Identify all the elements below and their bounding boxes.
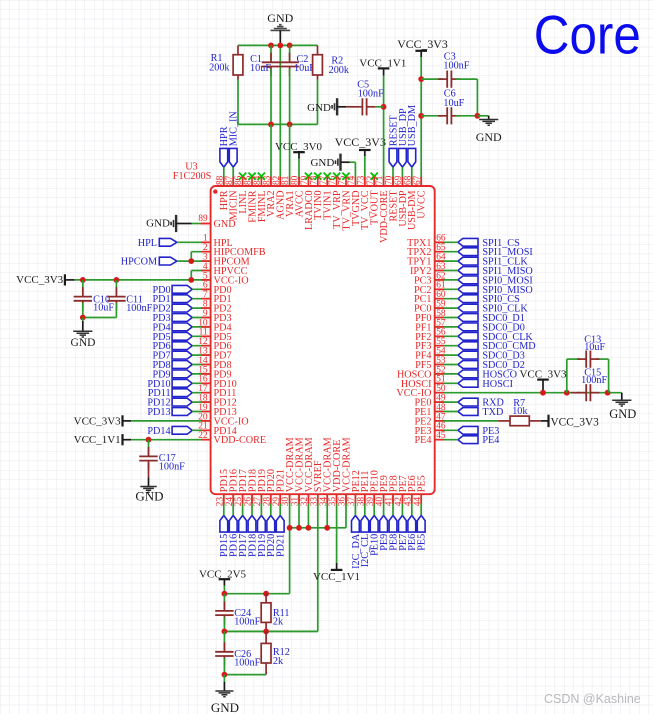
junction pin32 rail xyxy=(306,525,312,531)
svg-text:HPL: HPL xyxy=(138,238,157,249)
wire SVREF pin33 xyxy=(224,494,317,631)
wire VCC_1V1 pin22 xyxy=(131,439,211,441)
pin 38 PE11 (bottom) xyxy=(356,470,371,506)
wire PD20 xyxy=(270,494,272,515)
wire HOSCI xyxy=(435,382,458,384)
svg-text:GND: GND xyxy=(135,489,163,504)
pin 25 PD17 (bottom) xyxy=(234,469,249,506)
wire SPI0_CS xyxy=(435,298,458,300)
pin 34 VCC-DRAM (bottom) xyxy=(319,437,334,506)
wire GND to pin 74 xyxy=(350,162,356,186)
junction C1 top xyxy=(268,43,274,49)
wire top rail R1-R2 xyxy=(238,44,318,46)
junction pin30 rail xyxy=(287,525,293,531)
power VCC_1V1 (pin 35) xyxy=(313,494,360,583)
wire C6 right xyxy=(456,115,478,117)
svg-text:100nF: 100nF xyxy=(234,658,260,669)
svg-text:10uF: 10uF xyxy=(584,342,605,353)
net flag PE9 (pin 40) xyxy=(379,515,390,550)
wire HPR xyxy=(223,167,225,186)
junction C2 top xyxy=(287,43,293,49)
net flag SPI1_CS (pin 66) xyxy=(458,238,520,249)
wire VCC_3V3 to pin 73 xyxy=(364,156,366,186)
net flag SDC0_D0 (pin 57) xyxy=(458,322,525,333)
wire PD0 xyxy=(192,288,210,290)
junction C1 bottom xyxy=(268,122,274,128)
svg-text:200k: 200k xyxy=(209,62,230,73)
wire VCC_1V1 to pin 71 xyxy=(383,76,385,187)
wire PD1 xyxy=(192,298,210,300)
net flag PD10 (pin 16) xyxy=(147,379,192,390)
wire SDC0_CLK xyxy=(435,335,458,337)
net flag MIC_IN (pin 87) xyxy=(229,111,240,168)
wire VCC_3V3 rail to pin 67 xyxy=(420,57,422,186)
pin 57 PF1 (right) xyxy=(415,318,446,333)
svg-text:100nF: 100nF xyxy=(234,617,260,628)
pin 69 USB-DP (top) xyxy=(394,175,409,226)
net flag PD7 (pin 13) xyxy=(152,351,192,362)
svg-text:GND: GND xyxy=(267,11,293,25)
pin 67 UVCC (top) xyxy=(413,175,428,218)
pin 18 PD12 (left) xyxy=(198,394,236,409)
pin 52 HOSCO (right) xyxy=(397,365,446,380)
junction C6 right xyxy=(475,113,481,119)
junction HPCOM tie xyxy=(188,258,194,264)
wire PE8 xyxy=(392,494,394,515)
wire AGND vertical to pin 82 xyxy=(279,43,281,186)
pin 73 TV_VCC (top) xyxy=(356,175,371,230)
pin 28 PD20 (bottom) xyxy=(262,469,277,506)
pin 60 PC1 (right) xyxy=(414,290,446,305)
svg-text:UVCC: UVCC xyxy=(417,190,428,219)
junction mid C24 xyxy=(222,629,228,635)
svg-text:PD21: PD21 xyxy=(276,534,287,557)
pin 58 PF0 (right) xyxy=(415,309,446,324)
capacitor C10 xyxy=(74,280,115,313)
pin 84 FMINL (top) xyxy=(253,173,268,223)
capacitor C26 xyxy=(215,631,260,668)
power VCC_1V1 (pin 22) xyxy=(74,434,131,446)
net flag PD18 (pin 26) xyxy=(247,515,258,557)
ground top (AGND) xyxy=(267,11,293,43)
U3 pin leads xyxy=(201,177,444,504)
power VCC_3V3 (pin 20) xyxy=(74,415,131,427)
net flag PD20 (pin 28) xyxy=(266,515,277,557)
ground C5 xyxy=(307,98,346,115)
wire divider bottom rail xyxy=(224,658,266,675)
pin 86 LINL (top) xyxy=(234,173,249,214)
net flag USB_DM (pin 68) xyxy=(407,105,418,167)
pin 61 PC2 (right) xyxy=(414,281,446,296)
net flag PD9 (pin 15) xyxy=(152,369,192,380)
svg-text:VCC_3V3: VCC_3V3 xyxy=(16,274,64,286)
pin 22 VDD-CORE (left) xyxy=(198,431,266,446)
pin 6 PD0 (left) xyxy=(203,281,232,296)
capacitor C24 xyxy=(215,594,260,628)
pin 10 PD4 (left) xyxy=(198,318,231,333)
pin 20 VCC-IO (left) xyxy=(198,412,248,427)
pin 30 VCC-DRAM (bottom) xyxy=(281,437,296,506)
pin 24 PD16 (bottom) xyxy=(225,469,240,506)
wire PE9 xyxy=(383,494,385,515)
pin 17 PD11 (left) xyxy=(198,384,236,399)
U3 pin1 dot xyxy=(213,189,217,193)
wire PD13 xyxy=(192,411,210,413)
wire RXD xyxy=(435,401,458,403)
pin 74 TVGND (top) xyxy=(347,175,362,226)
junction HPVCC tie xyxy=(188,277,194,283)
junction C10 top xyxy=(80,277,86,283)
wire I2C_CL xyxy=(364,494,366,515)
wire SPI0_MOSI xyxy=(435,279,458,281)
wire C2 bottom xyxy=(289,69,291,125)
pin 32 VCC-DRAM (bottom) xyxy=(300,437,315,506)
wire PD9 xyxy=(192,373,210,375)
wire SPI1_MOSI xyxy=(435,251,458,253)
wire C10/C11 bottom xyxy=(83,303,117,318)
wire SPI1_MISO xyxy=(435,270,458,272)
svg-text:VCC_3V3: VCC_3V3 xyxy=(335,135,386,149)
pin 1 HPL (left) xyxy=(203,234,233,249)
wire PD7 xyxy=(192,354,210,356)
net flag HPL (pin 1) xyxy=(138,238,177,249)
pin 55 PF3 (right) xyxy=(415,337,446,352)
net flag I2C_CL (pin 38) xyxy=(360,515,371,567)
net flag RXD (pin 49) xyxy=(458,398,504,409)
pin 85 FMINR (top) xyxy=(244,173,259,223)
junction C3 branch xyxy=(418,76,424,82)
capacitor C6 xyxy=(421,88,464,124)
wire C5 to VCC_1V1 xyxy=(375,106,384,108)
wire R2 bottom lead xyxy=(317,75,319,124)
wire USB_DP xyxy=(401,167,403,186)
svg-text:F1C200S: F1C200S xyxy=(173,171,212,182)
pin 36 VCC-DRAM (bottom) xyxy=(338,437,353,506)
pin 12 PD6 (left) xyxy=(198,337,231,352)
wire PD5 xyxy=(192,335,210,337)
net flag USB_DP (pin 69) xyxy=(398,108,409,167)
resistor R12 xyxy=(261,631,290,667)
pin 14 PD8 (left) xyxy=(198,356,231,371)
svg-text:VCC_1V1: VCC_1V1 xyxy=(313,571,360,583)
svg-text:10uF: 10uF xyxy=(93,302,114,313)
resistor R1 xyxy=(209,53,243,75)
wire RESET xyxy=(392,167,394,186)
pin 23 PD15 (bottom) xyxy=(215,469,230,506)
wire PD16 xyxy=(232,494,234,515)
net flag HPCOM (pin 3) xyxy=(121,257,177,268)
svg-text:VCC_3V3: VCC_3V3 xyxy=(397,37,448,51)
pin 76 TV_VRP (top) xyxy=(328,173,343,229)
wire VCC_3V3 rail pin5 xyxy=(75,271,211,280)
pin 87 MICIN (top) xyxy=(225,175,240,220)
svg-text:2k: 2k xyxy=(273,617,284,628)
net flag PD1 (pin 7) xyxy=(152,294,192,305)
pin 46 PE3 (right) xyxy=(415,422,446,437)
wire PD3 xyxy=(192,317,210,319)
wire SDC0_D0 xyxy=(435,326,458,328)
net flag SDC0_CLK (pin 56) xyxy=(458,332,534,343)
wire USB_DM xyxy=(411,167,413,186)
pin 43 PE6 (bottom) xyxy=(403,475,418,506)
pin 47 PE2 (right) xyxy=(415,412,446,427)
wire SDC0_CMD xyxy=(435,345,458,347)
net flag PD19 (pin 27) xyxy=(257,515,268,557)
wire SPI0_CLK xyxy=(435,307,458,309)
net flag I2C_DA (pin 37) xyxy=(351,515,362,568)
wire PD14 xyxy=(192,429,210,431)
svg-text:Core: Core xyxy=(534,3,641,65)
wire VCC_3V3 pin20 xyxy=(131,420,211,422)
svg-text:100nF: 100nF xyxy=(443,60,469,71)
net flag PD8 (pin 14) xyxy=(152,360,192,371)
wire R1 bottom lead xyxy=(237,75,239,124)
pin 89 GND (left) xyxy=(198,213,235,230)
svg-text:GND: GND xyxy=(476,130,502,144)
pin 13 PD7 (left) xyxy=(198,347,231,362)
pin 26 PD18 (bottom) xyxy=(244,469,259,506)
pin 44 PE5 (bottom) xyxy=(413,475,428,506)
pin 11 PD5 (left) xyxy=(199,328,232,343)
power VCC_1V1 (pin 71 VDD-CORE) xyxy=(359,57,406,75)
svg-text:GND: GND xyxy=(71,337,96,349)
svg-text:PE5: PE5 xyxy=(417,475,428,492)
pin 77 TVIN1 (top) xyxy=(319,173,334,220)
net flag SPI1_MOSI (pin 65) xyxy=(458,247,533,258)
power VCC_3V3 (R7) xyxy=(541,415,599,429)
net flag SPI0_CS (pin 60) xyxy=(458,294,520,305)
wire VRA1 to pin 81 xyxy=(289,124,291,186)
svg-text:USB_DM: USB_DM xyxy=(407,105,418,146)
pin 49 PE0 (right) xyxy=(415,394,446,409)
junction C2 bottom xyxy=(287,122,293,128)
wire PD6 xyxy=(192,345,210,347)
wire PD10 xyxy=(192,382,210,384)
svg-text:VCC_3V3: VCC_3V3 xyxy=(74,415,122,427)
pin 29 PD21 (bottom) xyxy=(272,469,287,506)
svg-text:10uF: 10uF xyxy=(443,98,464,109)
wire PD15 xyxy=(223,494,225,515)
svg-text:PD13: PD13 xyxy=(147,407,170,418)
wire PD19 xyxy=(260,494,262,515)
pin 39 PE10 (bottom) xyxy=(366,470,381,506)
pin 3 HPCOM (left) xyxy=(203,253,250,268)
net flag PD21 (pin 29) xyxy=(276,515,287,557)
junction C15 left xyxy=(564,390,570,396)
wire PD2 xyxy=(192,307,210,309)
net flag PE3 (pin 46) xyxy=(458,426,499,437)
wire SDC0_D1 xyxy=(435,317,458,319)
net flag PE5 (pin 44) xyxy=(417,515,428,550)
resistor R7 xyxy=(510,398,529,426)
net flag PD2 (pin 8) xyxy=(152,304,192,315)
pin 45 PE4 (right) xyxy=(415,431,446,446)
wire MIC_IN xyxy=(232,167,234,186)
net flag SPI0_MISO (pin 61) xyxy=(458,285,533,296)
wire HOSCO xyxy=(435,373,458,375)
net flag PD16 (pin 24) xyxy=(229,515,240,557)
net flag PD12 (pin 18) xyxy=(147,398,192,409)
pin 27 PD19 (bottom) xyxy=(253,469,268,506)
pin 54 PF4 (right) xyxy=(415,347,446,362)
svg-text:GND: GND xyxy=(214,219,236,230)
pin 71 VDD-CORE (top) xyxy=(375,175,390,243)
pin 81 VRA1 (top) xyxy=(281,175,296,217)
wire SPI0_MISO xyxy=(435,288,458,290)
svg-text:100nF: 100nF xyxy=(358,89,384,100)
pin 31 VCC-DRAM (bottom) xyxy=(291,437,306,506)
wire PE7 xyxy=(401,494,403,515)
pin 41 PE8 (bottom) xyxy=(385,475,400,506)
wire VCC_3V0 to pin 80 xyxy=(298,159,300,187)
svg-text:89: 89 xyxy=(198,213,208,223)
wire C13 loop xyxy=(567,359,609,393)
ground C10/C11 xyxy=(71,318,96,350)
pin 63 IPY2 (right) xyxy=(410,262,446,277)
pin 16 PD10 (left) xyxy=(198,375,236,390)
wire VCC_2V5 rail xyxy=(224,593,289,595)
pin 4 HPVCC (left) xyxy=(203,262,248,277)
svg-text:GND: GND xyxy=(310,157,334,169)
power VCC_3V3 (pin 67 UVCC rail) xyxy=(397,37,448,57)
junction VCC_3V3 pin50 xyxy=(540,390,546,396)
wire PD4 xyxy=(192,326,210,328)
pin 59 PC0 (right) xyxy=(414,300,446,315)
resistor R11 xyxy=(261,594,289,628)
wire PE5 xyxy=(420,494,422,515)
net flag PD3 (pin 9) xyxy=(152,313,192,324)
junction VCC_2V5 xyxy=(222,591,228,597)
wire HPCOM to pins 2,3 xyxy=(177,252,211,261)
ground pin 89 xyxy=(146,215,191,232)
svg-text:GND: GND xyxy=(146,217,170,229)
ground C3/C6 xyxy=(476,116,502,144)
net flag SPI0_MOSI (pin 62) xyxy=(458,275,533,286)
net flag PE7 (pin 42) xyxy=(398,515,409,550)
pin 64 TPY1 (right) xyxy=(407,253,446,268)
capacitor C11 xyxy=(107,280,152,314)
pin 83 VRA2 (top) xyxy=(262,175,277,217)
svg-text:HPCOM: HPCOM xyxy=(121,257,157,268)
capacitor C15 xyxy=(571,368,607,402)
wire PE10 xyxy=(373,494,375,515)
wire VCC-DRAM rail xyxy=(290,494,346,594)
capacitor C1 xyxy=(250,45,280,76)
net flag SDC0_D2 (pin 53) xyxy=(458,360,525,371)
pin 33 SVREF (bottom) xyxy=(309,460,324,506)
op-amp U3 F1C200S chip body xyxy=(211,186,435,494)
junction C5 at VCC_1V1 xyxy=(381,104,387,110)
net flag PD4 (pin 10) xyxy=(152,322,192,333)
pin 70 RESET (top) xyxy=(385,175,400,221)
pin 78 TVIN0 (top) xyxy=(309,173,324,220)
pin 66 TPX1 (right) xyxy=(407,234,446,249)
net flag SPI1_MISO (pin 63) xyxy=(458,266,533,277)
pin 48 PE1 (right) xyxy=(415,403,446,418)
svg-text:VCC_3V3: VCC_3V3 xyxy=(551,416,600,428)
svg-text:TXD: TXD xyxy=(482,407,503,418)
wire PD11 xyxy=(192,392,210,394)
capacitor C2 xyxy=(280,45,315,76)
ground C17 xyxy=(135,463,163,504)
pin 65 TPX2 (right) xyxy=(407,243,446,258)
net flag TXD (pin 48) xyxy=(458,407,503,418)
wire PD21 xyxy=(279,494,281,515)
wire PD8 xyxy=(192,364,210,366)
svg-text:PE5: PE5 xyxy=(417,534,428,551)
svg-text:10uF: 10uF xyxy=(250,63,271,74)
svg-text:10k: 10k xyxy=(512,406,528,417)
pin 37 PE12 (bottom) xyxy=(347,470,362,506)
pin 62 PC3 (right) xyxy=(414,271,446,286)
svg-text:HOSCI: HOSCI xyxy=(482,379,513,390)
capacitor C3 xyxy=(421,51,470,87)
wire VCC-IO pin50 rail xyxy=(435,392,622,394)
net flag SPI0_CLK (pin 59) xyxy=(458,304,528,315)
net flag SDC0_D3 (pin 54) xyxy=(458,351,525,362)
net flag PD15 (pin 23) xyxy=(219,515,230,557)
wire PE4 xyxy=(435,439,458,441)
pin 75 TV_VRN (top) xyxy=(338,173,353,231)
junction C17 xyxy=(146,437,152,443)
svg-text:GND: GND xyxy=(211,700,239,714)
net flag PE6 (pin 43) xyxy=(407,515,418,550)
junction C11 top xyxy=(114,277,120,283)
pin 5 VCC-IO (left) xyxy=(203,271,249,286)
net flag RESET (pin 70) xyxy=(388,114,399,167)
svg-text:100nF: 100nF xyxy=(126,303,152,314)
svg-text:VDD-CORE: VDD-CORE xyxy=(214,435,267,446)
net flag PE4 (pin 45) xyxy=(458,435,499,446)
junction C15 right xyxy=(605,390,611,396)
wire C3 right leg xyxy=(456,79,478,116)
wire SDC0_D2 xyxy=(435,364,458,366)
net flag PE8 (pin 41) xyxy=(388,515,399,550)
ground bottom xyxy=(211,675,239,714)
svg-text:PD14: PD14 xyxy=(147,426,170,437)
wire R7 to VCC_3V3 xyxy=(529,420,541,422)
wire SPI1_CLK xyxy=(435,260,458,262)
power VCC_3V0 (pin 80 AVCC) xyxy=(275,141,323,159)
ground TVGND (pin 74) xyxy=(310,154,349,171)
power VCC_3V3 (pin 5 rail) xyxy=(16,274,75,286)
svg-text:100nF: 100nF xyxy=(581,375,607,386)
net flag PD14 (pin 21) xyxy=(147,426,192,437)
net flag HOSCI (pin 51) xyxy=(458,379,514,390)
net flag PD17 (pin 25) xyxy=(238,515,249,557)
capacitor C13 xyxy=(577,335,605,368)
svg-text:2k: 2k xyxy=(273,656,284,667)
pin 56 PF2 (right) xyxy=(415,328,446,343)
net flag SPI1_CLK (pin 64) xyxy=(458,257,528,268)
pin 51 HOSCI (right) xyxy=(401,375,446,390)
junction R11 top xyxy=(263,591,269,597)
net flag PD11 (pin 17) xyxy=(148,388,192,399)
wire HPL xyxy=(177,241,211,243)
wire bottom rail xyxy=(238,123,318,125)
wire PD17 xyxy=(242,494,244,515)
pin 35 VDD-CORE (bottom) xyxy=(328,440,343,507)
svg-text:GND: GND xyxy=(609,407,636,421)
svg-text:100nF: 100nF xyxy=(159,461,185,472)
svg-text:PE4: PE4 xyxy=(415,435,432,446)
junction C10 bottom xyxy=(80,315,86,321)
pin 80 AVCC (top) xyxy=(291,175,306,217)
svg-text:GND: GND xyxy=(307,102,331,114)
pin 68 USB-DM (top) xyxy=(403,175,418,230)
junction bottom C26 xyxy=(222,672,228,678)
svg-text:MIC_IN: MIC_IN xyxy=(229,111,240,147)
